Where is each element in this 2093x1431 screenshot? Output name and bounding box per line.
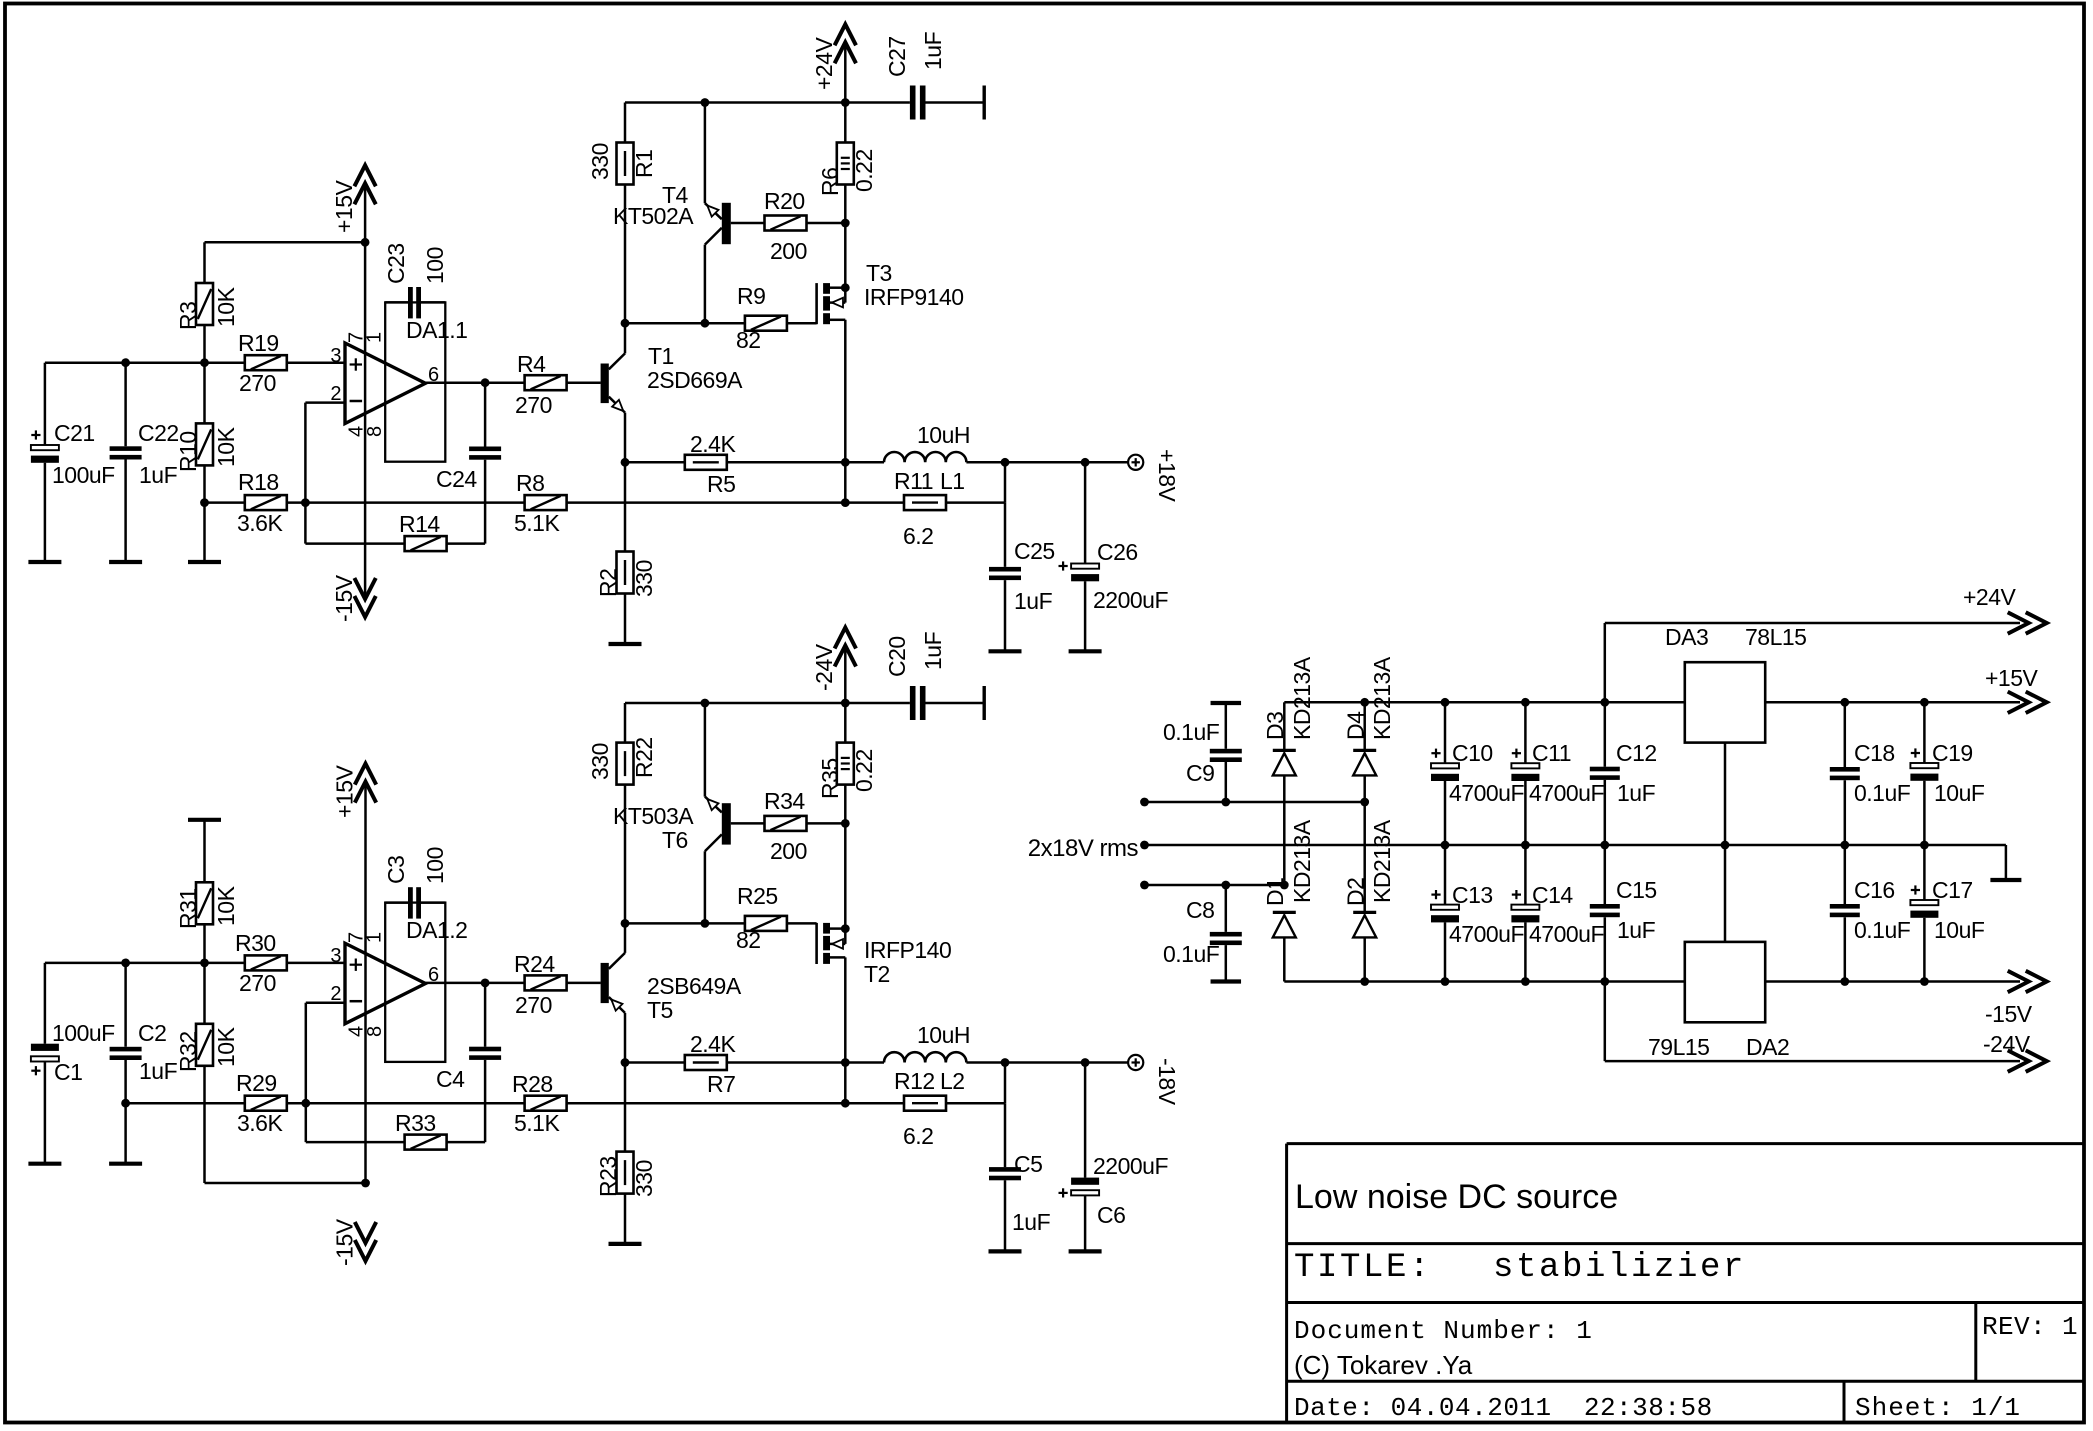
mosfet T2 IRFP140 — [817, 823, 952, 1062]
resistor R1 330 — [587, 103, 657, 324]
junction — [121, 1099, 130, 1108]
resistor R2 330 — [595, 462, 657, 644]
svg-text:R23: R23 — [595, 1156, 621, 1197]
capacitor C19 10uF — [1910, 702, 1984, 845]
power -15V output arrow — [1985, 971, 2047, 1027]
ground (common) — [1990, 878, 2021, 882]
junction — [1721, 841, 1730, 850]
junction — [1001, 458, 1010, 467]
svg-text:5.1K: 5.1K — [514, 1110, 560, 1136]
wire: inverting input branch — [305, 401, 345, 404]
svg-text:-24V: -24V — [811, 643, 837, 691]
wire: input net — [45, 361, 345, 364]
wire: - rectified rail — [1284, 980, 1685, 983]
transistor T4 KT502A — [613, 103, 731, 324]
junction — [481, 979, 490, 988]
svg-text:C20: C20 — [884, 636, 910, 677]
svg-text:0.22: 0.22 — [851, 149, 877, 192]
svg-text:T3: T3 — [866, 260, 892, 286]
svg-text:R24: R24 — [514, 951, 555, 977]
svg-text:DA1.2: DA1.2 — [406, 917, 467, 943]
svg-text:10uF: 10uF — [1934, 780, 1985, 806]
junction — [121, 358, 130, 367]
resistor R14 — [305, 511, 485, 551]
svg-text:330: 330 — [631, 1160, 657, 1197]
svg-text:2: 2 — [330, 983, 341, 1005]
node: -18V output — [1128, 1055, 1180, 1106]
svg-text:82: 82 — [736, 327, 761, 353]
svg-text:R7: R7 — [707, 1071, 735, 1097]
svg-text:KD213A: KD213A — [1369, 819, 1395, 903]
ground (R23) — [609, 1242, 642, 1246]
svg-text:C11: C11 — [1532, 740, 1571, 766]
svg-text:R14: R14 — [399, 511, 440, 537]
svg-text:(C) Tokarev .Ya: (C) Tokarev .Ya — [1294, 1350, 1473, 1380]
svg-text:+15V: +15V — [331, 179, 357, 233]
power -15V arrow (bottom channel) — [331, 1218, 376, 1266]
wire: feedback net — [305, 501, 845, 504]
wire: + rectified rail — [1284, 701, 1685, 704]
ground (C22) — [109, 560, 142, 564]
junction — [1840, 698, 1849, 707]
svg-text:R34: R34 — [764, 788, 805, 814]
svg-text:C3: C3 — [383, 856, 409, 884]
svg-text:79L15: 79L15 — [1648, 1034, 1709, 1060]
junction — [121, 959, 130, 968]
junction — [1441, 977, 1450, 986]
svg-text:R11: R11 — [894, 468, 933, 494]
svg-text:330: 330 — [587, 143, 613, 180]
capacitor C27 1uF — [884, 31, 986, 119]
svg-text:0.22: 0.22 — [851, 749, 877, 792]
ground (C2) — [109, 1162, 142, 1166]
wire: op-amp output (bottom) — [426, 982, 525, 985]
svg-text:DA2: DA2 — [1746, 1034, 1789, 1060]
svg-text:-15V: -15V — [331, 1218, 357, 1266]
svg-text:R28: R28 — [512, 1071, 553, 1097]
svg-text:5.1K: 5.1K — [514, 510, 560, 536]
svg-text:stabilizier: stabilizier — [1493, 1249, 1746, 1287]
junction — [1920, 841, 1929, 850]
junction — [1140, 841, 1149, 850]
svg-text:R2: R2 — [595, 569, 621, 597]
svg-text:+18V: +18V — [1154, 449, 1180, 503]
junction — [1920, 977, 1929, 986]
transistor T1 2SD669A — [601, 323, 744, 462]
svg-text:C27: C27 — [884, 36, 910, 77]
junction — [841, 924, 850, 933]
svg-text:R12: R12 — [894, 1068, 935, 1094]
svg-text:2x18V rms: 2x18V rms — [1028, 835, 1139, 862]
regulator DA2 79L15 — [1648, 942, 1789, 1060]
resistor R3 10K — [175, 242, 239, 362]
ground (C1) — [28, 1162, 61, 1166]
svg-text:200: 200 — [770, 838, 807, 864]
junction — [701, 919, 710, 928]
svg-text:-18V: -18V — [1154, 1058, 1180, 1106]
wire: V+ to V- power line through op-amp — [364, 242, 367, 599]
svg-text:4700uF: 4700uF — [1529, 780, 1604, 806]
svg-text:1uF: 1uF — [920, 631, 946, 670]
svg-text:R29: R29 — [236, 1070, 277, 1096]
capacitor C10 4700uF — [1431, 702, 1524, 845]
capacitor C6 2200uF — [1059, 1063, 1169, 1252]
transistor T5 2SB649A — [601, 923, 742, 1062]
capacitor C20 1uF — [884, 631, 986, 720]
junction — [1521, 841, 1530, 850]
svg-text:C16: C16 — [1854, 877, 1895, 903]
svg-text:1uF: 1uF — [1617, 917, 1656, 943]
wire: drain to R12 — [844, 1063, 847, 1104]
svg-text:2200uF: 2200uF — [1093, 1153, 1168, 1179]
svg-text:L1: L1 — [940, 468, 965, 494]
svg-text:10uF: 10uF — [1934, 917, 1985, 943]
wire: feedback net (bottom) — [306, 1102, 846, 1105]
svg-text:330: 330 — [631, 560, 657, 597]
wire: +24V rail (top) — [625, 101, 910, 104]
svg-text:REV: 1: REV: 1 — [1982, 1312, 2078, 1342]
junction — [621, 458, 630, 467]
svg-text:R25: R25 — [737, 883, 778, 909]
svg-text:C13: C13 — [1452, 882, 1493, 908]
junction — [1081, 458, 1090, 467]
junction — [841, 98, 850, 107]
svg-text:-15V: -15V — [331, 574, 357, 622]
junction — [1441, 698, 1450, 707]
svg-text:D1: D1 — [1262, 878, 1288, 906]
junction — [841, 1099, 850, 1108]
svg-text:3.6K: 3.6K — [237, 1110, 283, 1136]
svg-text:C26: C26 — [1097, 539, 1138, 565]
junction — [701, 319, 710, 328]
svg-text:IRFP9140: IRFP9140 — [864, 284, 964, 310]
wire: center tap input — [1145, 844, 2006, 847]
op-amp DA1.2 — [330, 903, 467, 1062]
svg-text:TITLE:: TITLE: — [1294, 1249, 1432, 1287]
svg-text:330: 330 — [587, 743, 613, 780]
resistor R32 10K — [175, 963, 239, 1183]
node: transformer input 2x18V rms — [1028, 835, 1139, 862]
junction — [1600, 841, 1609, 850]
svg-text:Document Number: 1: Document Number: 1 — [1294, 1316, 1593, 1346]
junction — [1140, 798, 1149, 807]
capacitor C18 0.1uF — [1830, 702, 1911, 845]
capacitor C21 — [31, 363, 115, 562]
junction — [1840, 977, 1849, 986]
inductor L2 10uH — [845, 1022, 1128, 1094]
svg-text:C6: C6 — [1097, 1202, 1125, 1228]
capacitor C2 1uF — [110, 963, 178, 1164]
junction — [200, 959, 209, 968]
svg-text:Date: 04.04.2011 22:38:58: Date: 04.04.2011 22:38:58 — [1294, 1393, 1713, 1423]
resistor R30 270 — [235, 930, 287, 996]
capacitor C1 100uF — [31, 963, 115, 1164]
capacitor C8 0.1uF — [1163, 885, 1242, 982]
svg-text:2.4K: 2.4K — [690, 431, 736, 457]
svg-text:0.1uF: 0.1uF — [1854, 917, 1911, 943]
wire: T5 collector net — [625, 922, 745, 925]
svg-text:R1: R1 — [631, 150, 657, 178]
power +24V arrow — [811, 24, 856, 102]
svg-text:R18: R18 — [238, 469, 279, 495]
svg-text:6.2: 6.2 — [903, 523, 933, 549]
diode D4 KD213A — [1342, 656, 1395, 802]
svg-text:R32: R32 — [175, 1031, 201, 1072]
svg-text:R19: R19 — [238, 330, 279, 356]
junction — [1441, 841, 1450, 850]
svg-text:1uF: 1uF — [139, 1058, 178, 1084]
svg-text:L2: L2 — [940, 1068, 965, 1094]
capacitor C26 2200uF — [1059, 462, 1169, 651]
junction — [841, 219, 850, 228]
wire: -15V output rail — [1765, 980, 2020, 983]
junction — [621, 319, 630, 328]
svg-text:R33: R33 — [395, 1110, 436, 1136]
ground (R10/R18 node) — [188, 560, 221, 564]
svg-text:82: 82 — [736, 927, 761, 953]
wire: DA3 ground pin — [1724, 743, 1727, 942]
svg-text:C25: C25 — [1014, 538, 1055, 564]
svg-text:C10: C10 — [1452, 740, 1493, 766]
svg-text:8: 8 — [364, 1026, 386, 1037]
svg-text:R20: R20 — [764, 188, 805, 214]
ground (C5) — [989, 1249, 1022, 1253]
capacitor C15 1uF — [1590, 845, 1657, 982]
svg-text:3: 3 — [330, 345, 341, 367]
svg-text:4700uF: 4700uF — [1449, 780, 1524, 806]
svg-text:R4: R4 — [517, 351, 546, 377]
svg-text:+15V: +15V — [331, 764, 357, 818]
svg-text:+24V: +24V — [811, 36, 837, 90]
svg-text:1uF: 1uF — [920, 31, 946, 70]
junction — [1600, 977, 1609, 986]
svg-text:C14: C14 — [1532, 882, 1573, 908]
svg-text:C22: C22 — [138, 420, 179, 446]
svg-text:3.6K: 3.6K — [237, 510, 283, 536]
svg-text:+15V: +15V — [1985, 665, 2039, 691]
wire: +24V takeoff — [1604, 623, 1607, 702]
wire: R11 to output — [1004, 462, 1007, 502]
resistor R6 0.22 — [817, 103, 877, 224]
junction — [621, 1058, 630, 1067]
junction — [1360, 698, 1369, 707]
resistor R22 330 — [587, 703, 657, 923]
capacitor C25 1uF — [989, 503, 1055, 652]
svg-text:C17: C17 — [1932, 877, 1973, 903]
svg-text:R3: R3 — [175, 302, 201, 330]
ground (R2) — [609, 642, 642, 646]
node: +18V output — [1128, 449, 1180, 503]
svg-text:1: 1 — [364, 932, 386, 943]
wire: -24V rail (bottom) — [625, 702, 910, 705]
mosfet T3 IRFP9140 — [817, 223, 964, 462]
svg-text:C4: C4 — [436, 1066, 465, 1092]
resistor R25 82 — [736, 883, 817, 953]
junction — [361, 1179, 370, 1188]
title block — [1287, 1144, 2084, 1423]
svg-text:2.4K: 2.4K — [690, 1031, 736, 1057]
svg-text:D3: D3 — [1262, 712, 1288, 740]
svg-text:C9: C9 — [1186, 760, 1214, 786]
wire: R32 to -15V — [205, 1182, 366, 1185]
wire: T1 collector net — [625, 322, 745, 325]
svg-text:100: 100 — [422, 847, 448, 884]
svg-text:270: 270 — [239, 970, 276, 996]
svg-text:2SB649A: 2SB649A — [647, 973, 742, 999]
junction — [1081, 1058, 1090, 1067]
power -24V arrow — [811, 628, 856, 704]
junction — [1521, 977, 1530, 986]
resistor R5 2.4K — [625, 431, 845, 497]
power +15V arrow (bottom channel) — [331, 764, 376, 1183]
svg-text:R22: R22 — [631, 737, 657, 778]
svg-text:8: 8 — [364, 426, 386, 437]
svg-text:C2: C2 — [138, 1020, 166, 1046]
resistor R7 2.4K — [625, 1031, 845, 1097]
junction — [1280, 881, 1289, 890]
capacitor C11 4700uF — [1511, 702, 1604, 845]
svg-text:1: 1 — [364, 332, 386, 343]
resistor R19 270 — [238, 330, 287, 396]
svg-text:R8: R8 — [516, 470, 544, 496]
svg-text:10K: 10K — [213, 426, 239, 467]
junction — [841, 458, 850, 467]
svg-text:10K: 10K — [213, 885, 239, 926]
junction — [1521, 698, 1530, 707]
resistor R31 10K — [175, 820, 239, 963]
svg-text:1uF: 1uF — [1014, 588, 1053, 614]
capacitor C16 0.1uF — [1830, 845, 1911, 982]
capacitor C9 0.1uF — [1163, 703, 1242, 802]
junction — [200, 498, 209, 507]
wire: op-amp output — [426, 381, 525, 384]
power -15V arrow (top channel) — [331, 574, 376, 622]
resistor R35 0.22 — [817, 703, 877, 823]
svg-text:KT502A: KT502A — [613, 203, 694, 229]
junction — [841, 498, 850, 507]
wire: +15V output rail — [1765, 701, 2020, 704]
svg-text:IRFP140: IRFP140 — [864, 937, 951, 963]
resistor R12 6.2 — [845, 1068, 1005, 1149]
capacitor C14 4700uF — [1511, 845, 1604, 982]
svg-text:KD213A: KD213A — [1289, 819, 1315, 903]
wire: upper winding input — [1145, 801, 1365, 804]
resistor R8 5.1K — [514, 470, 567, 536]
svg-text:C5: C5 — [1014, 1151, 1042, 1177]
resistor R23 330 — [595, 1063, 657, 1244]
wire: -24V takeoff — [1604, 982, 1607, 1062]
ground (C25) — [989, 649, 1022, 653]
capacitor C13 4700uF — [1431, 845, 1524, 982]
svg-text:T2: T2 — [864, 961, 890, 987]
svg-text:0.1uF: 0.1uF — [1163, 941, 1220, 967]
resistor R10 10K — [175, 363, 239, 562]
junction — [1221, 881, 1230, 890]
node: +15V rail junction wire — [205, 241, 366, 244]
resistor R34 200 — [731, 788, 846, 864]
diode D2 KD213A — [1342, 802, 1395, 982]
capacitor C24 — [436, 383, 501, 544]
svg-text:R6: R6 — [817, 168, 843, 196]
junction — [200, 358, 209, 367]
svg-text:270: 270 — [515, 992, 552, 1018]
resistor R4 270 — [515, 351, 601, 418]
svg-text:0.1uF: 0.1uF — [1854, 780, 1911, 806]
svg-text:2: 2 — [330, 383, 341, 405]
svg-text:10K: 10K — [213, 286, 239, 327]
svg-text:T1: T1 — [648, 343, 674, 369]
svg-text:C8: C8 — [1186, 897, 1214, 923]
svg-text:R35: R35 — [817, 758, 843, 799]
svg-text:T6: T6 — [662, 827, 688, 853]
power +24V output arrow — [1963, 584, 2047, 634]
ground (R31 top) — [188, 818, 221, 822]
junction — [621, 919, 630, 928]
wire: R12 to output — [1004, 1063, 1007, 1104]
diode D3 KD213A — [1262, 656, 1315, 885]
svg-text:1uF: 1uF — [1012, 1209, 1051, 1235]
junction — [841, 819, 850, 828]
svg-text:3: 3 — [330, 945, 341, 967]
junction — [1840, 841, 1849, 850]
resistor R28 5.1K — [512, 1071, 567, 1136]
svg-text:R9: R9 — [737, 283, 765, 309]
junction — [841, 283, 850, 292]
capacitor C23 100 — [383, 243, 448, 318]
ground (C21) — [28, 560, 61, 564]
wire: input net (bottom) — [45, 962, 345, 965]
wire: center tap to common — [2005, 845, 2008, 880]
capacitor C12 1uF — [1590, 702, 1657, 845]
diode D1 KD213A — [1262, 819, 1315, 981]
svg-text:C24: C24 — [436, 466, 477, 492]
svg-text:T5: T5 — [647, 997, 673, 1023]
resistor R9 82 — [736, 283, 817, 353]
capacitor C22 — [110, 363, 179, 562]
svg-text:6.2: 6.2 — [903, 1123, 933, 1149]
svg-text:-24V: -24V — [1983, 1031, 2031, 1057]
power +15V arrow (top channel) — [331, 165, 376, 242]
junction — [841, 699, 850, 708]
svg-text:DA3: DA3 — [1665, 624, 1708, 650]
svg-text:78L15: 78L15 — [1745, 624, 1806, 650]
svg-text:C15: C15 — [1616, 877, 1657, 903]
svg-text:KT503A: KT503A — [613, 803, 694, 829]
capacitor C5 1uF — [989, 1103, 1051, 1251]
capacitor C17 10uF — [1910, 845, 1984, 982]
ground (C6) — [1069, 1249, 1102, 1253]
resistor R33 — [306, 1110, 485, 1150]
wire: inverting input branch (bottom) — [306, 1002, 345, 1005]
svg-text:C12: C12 — [1616, 740, 1657, 766]
svg-text:2200uF: 2200uF — [1093, 587, 1168, 613]
svg-text:270: 270 — [239, 370, 276, 396]
junction — [1920, 698, 1929, 707]
resistor R24 270 — [514, 951, 601, 1018]
svg-text:C19: C19 — [1932, 740, 1973, 766]
svg-text:+24V: +24V — [1963, 584, 2017, 610]
power -24V output arrow — [1983, 1031, 2047, 1072]
junction — [841, 1058, 850, 1067]
resistor R18 3.6K — [205, 469, 306, 536]
op-amp DA1.1 — [330, 302, 467, 461]
svg-text:4700uF: 4700uF — [1449, 921, 1524, 947]
svg-text:C1: C1 — [54, 1059, 82, 1085]
capacitor C3 100 — [383, 847, 448, 918]
svg-text:D4: D4 — [1342, 711, 1368, 740]
svg-text:R31: R31 — [175, 888, 201, 929]
svg-text:-15V: -15V — [1985, 1001, 2033, 1027]
